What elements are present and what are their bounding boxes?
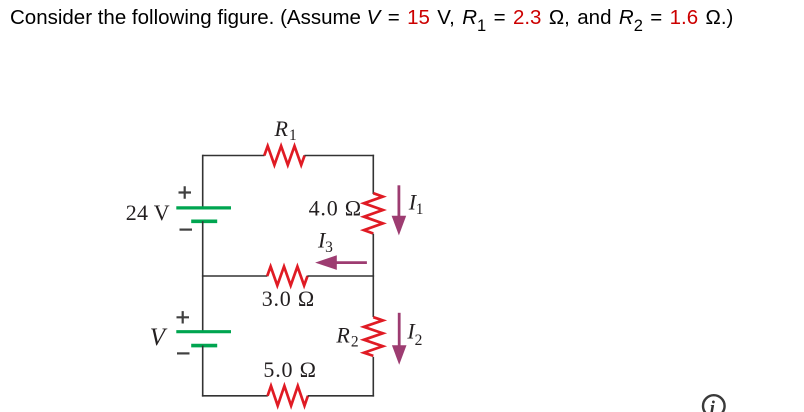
svg-text:i: i — [710, 398, 716, 412]
svg-text:4.0 Ω: 4.0 Ω — [309, 196, 362, 221]
battery 24 V plus sign — [179, 186, 192, 198]
wire right vertical between middle wire and R2 — [372, 276, 374, 317]
battery V plates — [176, 332, 231, 346]
label R2 — [335, 322, 358, 350]
label I1 — [408, 190, 424, 218]
svg-text:3.0 Ω: 3.0 Ω — [262, 286, 315, 311]
wire middle-right horizontal segment — [307, 275, 374, 277]
resistor 5.0 ohm zigzag — [268, 386, 308, 406]
svg-text:R: R — [274, 116, 289, 141]
wire right vertical above 4.0 ohm — [372, 155, 374, 194]
svg-text:V: V — [150, 324, 168, 351]
info icon — [703, 395, 725, 412]
wire left vertical between batteries — [202, 221, 204, 331]
resistor 4.0 ohm zigzag — [364, 193, 383, 233]
current arrow I2 — [392, 313, 407, 365]
problem statement text — [10, 3, 733, 33]
svg-text:2: 2 — [351, 333, 359, 350]
resistor R2 zigzag — [364, 317, 383, 356]
battery 24 V minus sign — [180, 229, 193, 231]
label I2 — [406, 319, 422, 349]
wire bottom-left horizontal segment — [202, 395, 268, 397]
wire right vertical below R2 — [372, 357, 374, 397]
svg-text:24 V: 24 V — [126, 200, 170, 225]
svg-text:1: 1 — [289, 127, 297, 144]
label R1 — [274, 116, 297, 144]
label 5.0 ohm — [263, 357, 316, 382]
wire middle-left horizontal segment — [202, 275, 268, 277]
battery 24 V plates — [176, 208, 231, 221]
svg-text:1: 1 — [416, 201, 424, 218]
wire bottom-right horizontal segment — [308, 395, 374, 397]
wire left vertical above 24V battery — [202, 155, 204, 208]
resistor R1 zigzag — [264, 146, 304, 165]
label I3 — [317, 228, 333, 256]
svg-text:5.0 Ω: 5.0 Ω — [263, 357, 316, 382]
wire top-right horizontal segment — [304, 155, 374, 157]
battery V minus sign — [177, 352, 190, 354]
label 4.0 ohm — [309, 196, 362, 221]
label V — [150, 324, 168, 351]
battery V plus sign — [177, 311, 190, 323]
current arrow I3 — [315, 255, 367, 270]
svg-text:2: 2 — [415, 332, 423, 349]
resistor 3.0 ohm zigzag — [267, 267, 307, 286]
label 3.0 ohm — [262, 286, 315, 311]
wire top-left horizontal segment — [203, 155, 265, 157]
svg-text:3: 3 — [325, 239, 333, 256]
current arrow I1 — [392, 185, 407, 235]
svg-text:R: R — [335, 322, 350, 347]
wire right vertical between 4.0 ohm and middle wire — [372, 234, 374, 276]
label 24 V — [126, 200, 170, 225]
wire left vertical below V battery — [202, 346, 204, 397]
